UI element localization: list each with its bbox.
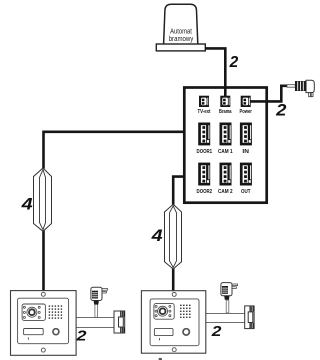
svg-text:4: 4 <box>20 195 32 213</box>
svg-text:CAM 1: CAM 1 <box>218 149 233 155</box>
svg-text:2: 2 <box>229 54 239 71</box>
svg-text:4: 4 <box>150 227 162 245</box>
svg-text:Automat: Automat <box>170 28 192 35</box>
svg-text:2: 2 <box>211 324 223 340</box>
svg-text:CAM 2: CAM 2 <box>218 189 233 195</box>
svg-text:OUT: OUT <box>241 189 251 195</box>
svg-text:Power: Power <box>239 109 252 115</box>
svg-text:bramowy: bramowy <box>169 36 194 43</box>
svg-text:2: 2 <box>275 101 286 119</box>
svg-text:TV-ext: TV-ext <box>198 109 211 115</box>
svg-text:Brama: Brama <box>219 109 232 115</box>
svg-text:DOOR1: DOOR1 <box>197 149 213 155</box>
svg-text:DOOR2: DOOR2 <box>197 189 213 195</box>
svg-text:2: 2 <box>75 328 86 344</box>
svg-text:IN: IN <box>242 149 249 155</box>
